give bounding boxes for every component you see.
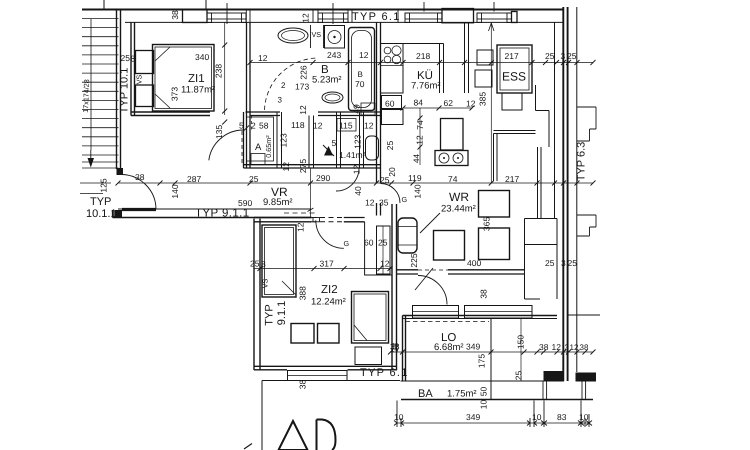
svg-text:115: 115 xyxy=(339,121,353,131)
svg-text:226: 226 xyxy=(299,65,309,79)
svg-text:217: 217 xyxy=(505,51,519,61)
svg-text:12: 12 xyxy=(301,13,311,23)
svg-text:74: 74 xyxy=(415,120,425,130)
svg-text:A: A xyxy=(255,142,262,153)
svg-text:12: 12 xyxy=(298,105,308,115)
svg-text:290: 290 xyxy=(316,173,330,183)
svg-text:10: 10 xyxy=(394,412,404,422)
svg-text:25: 25 xyxy=(378,238,388,248)
svg-text:123: 123 xyxy=(279,133,289,147)
svg-text:84: 84 xyxy=(414,98,424,108)
svg-text:23.44m²: 23.44m² xyxy=(441,204,476,215)
svg-text:12: 12 xyxy=(281,162,291,172)
svg-text:25: 25 xyxy=(545,51,555,61)
svg-text:12: 12 xyxy=(359,50,369,60)
svg-text:TYP 9.1.1: TYP 9.1.1 xyxy=(195,208,250,220)
svg-text:TYP 10.1: TYP 10.1 xyxy=(119,68,131,114)
svg-text:44: 44 xyxy=(412,154,421,163)
svg-text:70: 70 xyxy=(355,79,365,89)
svg-text:1.41m²: 1.41m² xyxy=(339,150,366,160)
svg-text:49: 49 xyxy=(352,104,362,114)
svg-text:60: 60 xyxy=(385,99,395,109)
svg-text:9.1.1: 9.1.1 xyxy=(276,301,288,325)
svg-text:218: 218 xyxy=(416,51,430,61)
svg-text:25: 25 xyxy=(545,258,555,268)
svg-text:25: 25 xyxy=(249,174,259,184)
svg-text:WR: WR xyxy=(449,190,469,204)
svg-text:2: 2 xyxy=(251,121,256,131)
svg-text:38: 38 xyxy=(580,343,589,352)
svg-text:12: 12 xyxy=(313,121,323,131)
svg-text:385: 385 xyxy=(478,92,488,106)
svg-text:38: 38 xyxy=(298,380,308,390)
svg-text:5: 5 xyxy=(239,121,244,131)
svg-text:12: 12 xyxy=(466,99,476,109)
svg-text:590: 590 xyxy=(238,198,252,208)
svg-text:20: 20 xyxy=(387,167,397,177)
svg-text:G: G xyxy=(344,239,350,248)
svg-text:140: 140 xyxy=(413,184,423,198)
svg-text:VS: VS xyxy=(134,75,143,85)
svg-text:135: 135 xyxy=(214,125,224,139)
svg-text:12: 12 xyxy=(552,342,562,352)
svg-text:365: 365 xyxy=(482,217,492,231)
svg-text:9.85m²: 9.85m² xyxy=(263,197,293,208)
svg-text:VS: VS xyxy=(312,30,322,39)
svg-text:287: 287 xyxy=(187,174,201,184)
svg-text:TYP: TYP xyxy=(264,304,276,325)
svg-text:12: 12 xyxy=(415,135,425,145)
svg-text:12: 12 xyxy=(364,121,374,131)
svg-text:12: 12 xyxy=(365,198,375,208)
svg-text:25: 25 xyxy=(385,141,395,151)
svg-text:8: 8 xyxy=(261,259,266,269)
svg-text:2: 2 xyxy=(281,81,286,90)
svg-text:12: 12 xyxy=(258,53,268,63)
svg-text:388: 388 xyxy=(298,286,308,300)
svg-text:1.75m²: 1.75m² xyxy=(447,389,477,400)
svg-text:58: 58 xyxy=(259,121,269,131)
svg-text:349: 349 xyxy=(466,342,480,352)
svg-text:38: 38 xyxy=(390,342,400,352)
svg-text:175: 175 xyxy=(477,354,487,368)
svg-text:TYP 6.1: TYP 6.1 xyxy=(352,11,401,23)
svg-text:238: 238 xyxy=(214,64,224,78)
svg-text:12: 12 xyxy=(380,259,390,269)
svg-text:38: 38 xyxy=(479,289,489,299)
svg-text:10.1.1: 10.1.1 xyxy=(86,208,117,220)
svg-text:83: 83 xyxy=(557,412,567,422)
svg-text:ESS: ESS xyxy=(502,70,526,84)
svg-text:38: 38 xyxy=(135,172,145,182)
svg-text:TYP 6.1: TYP 6.1 xyxy=(360,367,409,379)
svg-text:6.68m²: 6.68m² xyxy=(434,342,464,353)
svg-text:17x174/28: 17x174/28 xyxy=(81,79,91,113)
svg-text:TYP 6.3: TYP 6.3 xyxy=(576,142,588,182)
svg-text:8: 8 xyxy=(131,54,136,64)
svg-text:TYP: TYP xyxy=(90,196,111,208)
svg-text:3: 3 xyxy=(561,258,566,268)
svg-text:62: 62 xyxy=(444,98,454,108)
svg-text:38: 38 xyxy=(539,342,549,352)
svg-text:225: 225 xyxy=(409,253,419,267)
svg-text:10: 10 xyxy=(532,412,542,422)
svg-text:40: 40 xyxy=(353,186,363,196)
svg-text:ZI1: ZI1 xyxy=(188,73,205,85)
svg-text:173: 173 xyxy=(295,82,309,92)
svg-text:7.76m²: 7.76m² xyxy=(411,81,441,92)
svg-text:3: 3 xyxy=(561,51,566,61)
svg-text:ZI2: ZI2 xyxy=(321,284,338,296)
svg-text:118: 118 xyxy=(291,120,305,130)
svg-text:B: B xyxy=(358,70,363,79)
svg-text:3: 3 xyxy=(278,96,283,105)
svg-text:11.87m²: 11.87m² xyxy=(181,85,215,96)
svg-text:25: 25 xyxy=(250,259,260,269)
svg-text:60: 60 xyxy=(364,238,374,248)
svg-text:12: 12 xyxy=(352,165,362,175)
svg-text:12.24m²: 12.24m² xyxy=(311,297,346,308)
svg-text:25: 25 xyxy=(568,258,578,268)
svg-text:275: 275 xyxy=(298,159,308,173)
svg-text:35: 35 xyxy=(379,198,389,208)
svg-text:243: 243 xyxy=(327,50,341,60)
svg-text:VS: VS xyxy=(261,279,270,289)
svg-text:38: 38 xyxy=(170,10,180,20)
svg-text:25: 25 xyxy=(567,51,577,61)
svg-text:5: 5 xyxy=(332,138,337,148)
svg-text:373: 373 xyxy=(170,87,180,101)
svg-text:123: 123 xyxy=(352,134,362,148)
svg-text:349: 349 xyxy=(466,412,480,422)
svg-text:125: 125 xyxy=(99,178,109,192)
svg-text:0.65m²: 0.65m² xyxy=(264,135,273,158)
svg-text:BA: BA xyxy=(418,388,433,400)
svg-text:12: 12 xyxy=(295,222,305,232)
svg-text:217: 217 xyxy=(505,174,519,184)
svg-text:5.23m²: 5.23m² xyxy=(312,75,342,86)
svg-text:119: 119 xyxy=(408,173,422,183)
svg-text:317: 317 xyxy=(320,259,334,269)
svg-text:25: 25 xyxy=(121,53,131,63)
svg-text:150: 150 xyxy=(516,335,526,349)
svg-text:50: 50 xyxy=(479,387,489,397)
svg-text:400: 400 xyxy=(467,258,481,268)
svg-text:10: 10 xyxy=(579,412,589,422)
svg-text:10: 10 xyxy=(479,400,489,410)
svg-text:340: 340 xyxy=(195,52,209,62)
svg-text:74: 74 xyxy=(448,174,458,184)
svg-text:140: 140 xyxy=(170,184,180,198)
svg-text:25: 25 xyxy=(514,371,524,381)
svg-text:12: 12 xyxy=(570,343,579,352)
svg-text:G: G xyxy=(402,195,408,204)
